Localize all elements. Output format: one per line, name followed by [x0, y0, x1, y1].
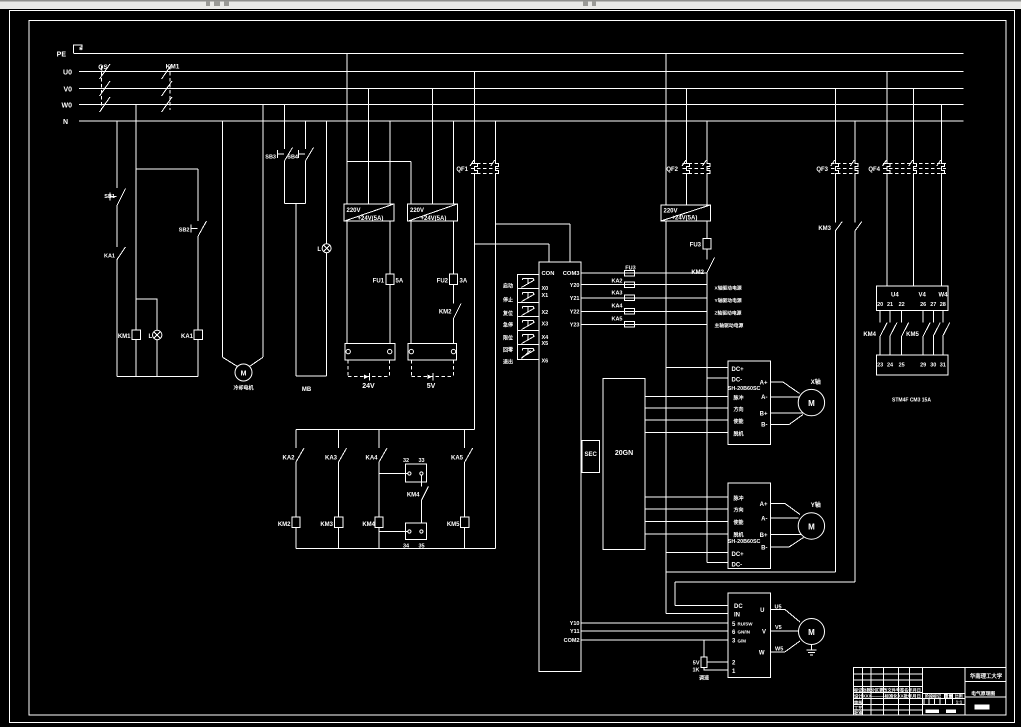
svg-text:KA1: KA1 [181, 334, 194, 340]
input switch SW4 [522, 321, 535, 330]
wire lamp branch [136, 299, 157, 377]
svg-text:X2: X2 [542, 310, 549, 316]
wire Y23 output [581, 323, 707, 325]
title block frame [853, 668, 1006, 716]
svg-text:+24V(5A): +24V(5A) [358, 216, 384, 222]
wire T2 mid feed from V0 [431, 89, 433, 204]
wire QF4 pole2 from V0 [912, 89, 914, 287]
wire T1 right feed from N [389, 121, 391, 343]
bus U0 [79, 71, 964, 73]
svg-text:V5: V5 [775, 625, 782, 631]
svg-text:RU/SW: RU/SW [738, 622, 754, 627]
svg-text:KM3: KM3 [320, 522, 333, 528]
svg-text:Y22: Y22 [570, 310, 580, 316]
svg-text:24: 24 [887, 363, 894, 369]
svg-text:FU1: FU1 [373, 279, 385, 285]
wire DC+ to driver2 [666, 551, 728, 553]
svg-text:26: 26 [920, 302, 926, 308]
svg-text:Y10: Y10 [570, 621, 580, 627]
wire QF3 pole1 from V0 [834, 89, 836, 572]
svg-text:20: 20 [877, 302, 883, 308]
svg-text:X轴驱动电源: X轴驱动电源 [715, 285, 742, 292]
svg-text:FU2: FU2 [437, 279, 449, 285]
svg-text:220V: 220V [664, 209, 678, 215]
svg-text:KA4: KA4 [365, 456, 378, 462]
svg-text:KA2: KA2 [611, 279, 622, 285]
svg-text:220V: 220V [347, 208, 361, 214]
svg-text:U0: U0 [63, 70, 72, 77]
wire Y21 output [581, 297, 707, 299]
wire B- to Y motor [770, 538, 803, 548]
bus PE [74, 53, 964, 55]
wire Y22 output [581, 310, 707, 312]
transformer T1 220V/24V [344, 204, 394, 221]
terminal block 24V [345, 343, 395, 360]
wire QF4 pole1 from U0 [886, 72, 888, 287]
svg-text:1K: 1K [692, 668, 699, 674]
wire branch to 34 [379, 531, 408, 533]
svg-text:标记处数分区更改文件号签名年月日: 标记处数分区更改文件号签名年月日 [853, 687, 921, 694]
svg-text:方向: 方向 [734, 507, 744, 514]
svg-text:SB2: SB2 [179, 228, 190, 234]
wire T3 mid feed from V0 [686, 89, 688, 205]
wire DC- to driver1 [707, 377, 728, 379]
svg-text:21: 21 [887, 302, 893, 308]
wire left control rail B from W0 [135, 105, 137, 377]
svg-text:华南理工大学: 华南理工大学 [970, 672, 1003, 680]
svg-text:Z轴驱动电源: Z轴驱动电源 [715, 310, 742, 317]
wire Y20 output [581, 284, 707, 286]
input switch SW6 [522, 349, 535, 358]
wire T3 left feed from PE down to spindle IN [666, 54, 728, 614]
svg-text:L: L [317, 247, 321, 253]
svg-text:Y23: Y23 [570, 323, 580, 329]
svg-text:B+: B+ [760, 411, 768, 417]
svg-text:U4: U4 [891, 293, 899, 299]
svg-text:3A: 3A [460, 279, 468, 285]
svg-text:QF2: QF2 [666, 167, 678, 173]
wire branch to 32 [379, 473, 408, 475]
wire 20GN to driver2 pin3 [645, 521, 728, 523]
terminal box 34 35 [406, 523, 427, 539]
svg-text:脱机: 脱机 [733, 431, 744, 438]
svg-text:脉冲: 脉冲 [733, 395, 744, 402]
svg-text:L: L [149, 334, 153, 340]
svg-text:FU3: FU3 [690, 243, 702, 249]
svg-text:SB3: SB3 [265, 155, 276, 161]
svg-text:批准: 批准 [854, 710, 863, 717]
svg-text:5V: 5V [427, 383, 436, 390]
svg-text:KM2: KM2 [439, 310, 452, 316]
svg-text:KA5: KA5 [451, 456, 464, 462]
svg-text:Y20: Y20 [570, 283, 580, 289]
svg-text:A-: A- [761, 395, 767, 401]
svg-text:设计XXX———标准化XX批年月日: 设计XXX———标准化XX批年月日 [854, 693, 921, 700]
svg-text:220V: 220V [410, 208, 424, 214]
wire 20GN to driver2 pin4 [645, 533, 728, 535]
svg-text:22: 22 [899, 302, 905, 308]
svg-text:Y轴: Y轴 [811, 501, 821, 509]
input switch SW2 [522, 293, 535, 302]
svg-text:B-: B- [761, 546, 767, 552]
svg-text:KA3: KA3 [325, 456, 338, 462]
svg-text:QF4: QF4 [868, 167, 880, 173]
svg-text:使能: 使能 [733, 519, 744, 526]
svg-text:SEC: SEC [585, 452, 598, 458]
wire stair to spindle IN [666, 571, 836, 573]
input switch column box [518, 274, 539, 359]
svg-text:主轴驱动电源: 主轴驱动电源 [715, 322, 744, 329]
svg-text:W5: W5 [775, 647, 783, 653]
svg-text:V: V [762, 630, 766, 636]
svg-text:回零: 回零 [503, 347, 514, 354]
terminal box U4 V4 W4 [876, 286, 948, 311]
svg-text:Y11: Y11 [570, 629, 579, 635]
controller box 20GN [603, 379, 645, 550]
svg-text:B+: B+ [760, 533, 768, 539]
svg-text:COM2: COM2 [564, 638, 580, 644]
svg-text:25: 25 [899, 363, 905, 369]
dashed 5V output [411, 360, 453, 377]
svg-text:KM2: KM2 [278, 522, 291, 528]
svg-text:KM4: KM4 [407, 493, 420, 499]
svg-text:M: M [808, 628, 815, 637]
svg-text:X轴: X轴 [811, 378, 821, 386]
svg-text:U5: U5 [775, 605, 782, 611]
wire relay row bottom bus [296, 547, 495, 549]
input switch SW5 [522, 335, 535, 344]
svg-text:KA1: KA1 [104, 254, 115, 260]
svg-text:重量: 重量 [945, 693, 953, 699]
svg-text:KM3: KM3 [818, 226, 831, 232]
dashed 24V output [348, 360, 390, 377]
svg-text:30: 30 [930, 363, 936, 369]
svg-text:5A: 5A [396, 279, 404, 285]
wire T3 right feed from N [706, 121, 708, 562]
svg-text:23: 23 [877, 363, 883, 369]
svg-text:脉冲: 脉冲 [733, 495, 744, 502]
interface box SEC [582, 441, 599, 473]
svg-text:N: N [63, 119, 68, 126]
svg-text:U: U [760, 608, 764, 614]
svg-text:28: 28 [940, 302, 946, 308]
wire 20GN to driver2 pin2 [645, 508, 728, 510]
wire 20GN to driver1 pin3 [645, 419, 728, 421]
wire QF1 right pole from N to relay return [494, 121, 496, 548]
svg-text:G/M: G/M [738, 638, 747, 643]
PE flag symbol [74, 45, 83, 54]
wire SB3/SB4 bottom bar [285, 203, 306, 205]
bus W0 [79, 104, 964, 106]
svg-text:B-: B- [761, 423, 767, 429]
svg-text:+24V(5A): +24V(5A) [421, 216, 447, 222]
svg-text:KA3: KA3 [611, 291, 622, 297]
wire relay row top bus [296, 429, 475, 431]
svg-text:1:1: 1:1 [956, 700, 963, 705]
svg-text:W: W [759, 651, 765, 657]
svg-text:使能: 使能 [733, 418, 744, 425]
wire 20GN to driver1 pin4 [645, 432, 728, 434]
svg-text:24V: 24V [362, 383, 375, 390]
terminal block 5V [408, 343, 456, 360]
svg-text:M: M [808, 522, 815, 531]
wire A- to X motor [770, 396, 799, 398]
wire A+ to X motor [770, 382, 799, 394]
wire 20GN to driver1 pin2 [645, 407, 728, 409]
wire left control bottom bar [117, 375, 198, 377]
svg-text:W4: W4 [939, 293, 949, 299]
svg-text:32: 32 [403, 458, 409, 464]
wire left control rail A from N [116, 121, 118, 376]
wire QF3 pole2 from N [854, 121, 856, 582]
wire T2 right feed from N [453, 121, 455, 343]
wire MB drop [295, 204, 297, 376]
svg-text:SH-20B60SC: SH-20B60SC [728, 386, 761, 392]
wire DC- to driver2 [707, 561, 728, 563]
wire T1 mid feed from V0 [367, 89, 369, 204]
input switch SW3 [522, 307, 535, 316]
svg-text:DC+: DC+ [732, 552, 745, 558]
wire T1 left feed from PE [346, 54, 348, 344]
wire A- to Y motor [770, 517, 798, 519]
svg-text:+24V(5A): +24V(5A) [672, 216, 698, 222]
wire stair feed to COM rail [475, 244, 549, 262]
svg-text:KA4: KA4 [611, 304, 623, 310]
stepper driver U1 X axis [728, 361, 770, 445]
stepper driver U2 Y axis [728, 483, 770, 568]
wire Y10 to spindle pin5 [581, 622, 728, 624]
svg-text:QF1: QF1 [456, 167, 468, 173]
title filled bar2 [946, 710, 956, 713]
bus N [79, 120, 964, 122]
svg-text:SH-20B60SC: SH-20B60SC [728, 539, 761, 545]
svg-text:IN: IN [734, 613, 740, 619]
wire COM2 to spindle pin3 [581, 639, 728, 641]
svg-text:X3: X3 [542, 322, 549, 328]
svg-text:KM2: KM2 [691, 270, 704, 276]
wire B+ to Y motor [770, 534, 801, 536]
svg-text:停止: 停止 [503, 297, 513, 304]
input switch SW1 [522, 278, 535, 287]
wire B- to X motor [770, 415, 803, 425]
svg-text:退出: 退出 [503, 359, 513, 366]
svg-text:KM5: KM5 [447, 522, 460, 528]
svg-text:33: 33 [418, 458, 424, 464]
wire motor M feeder left from N [222, 121, 224, 357]
PLC terminal strip CON [539, 262, 581, 672]
svg-text:KM5: KM5 [906, 332, 919, 338]
svg-text:X1: X1 [542, 293, 549, 299]
svg-text:QF3: QF3 [816, 167, 828, 173]
svg-text:M: M [808, 399, 815, 408]
svg-text:KM4: KM4 [362, 522, 375, 528]
svg-text:A-: A- [761, 517, 767, 523]
svg-text:V0: V0 [63, 87, 72, 94]
motor M1 funnel leads [223, 357, 264, 366]
svg-text:GN/IN: GN/IN [738, 630, 751, 635]
spindle motor M [799, 619, 825, 645]
svg-text:DC-: DC- [732, 563, 743, 569]
wire stair feed to CON rail [495, 224, 570, 262]
svg-text:CON: CON [542, 271, 555, 277]
svg-text:27: 27 [930, 302, 936, 308]
svg-text:SB4: SB4 [287, 155, 299, 161]
svg-text:KA5: KA5 [611, 317, 622, 323]
wire QF1 left pole from U0 to relay row [474, 72, 476, 430]
wire left control rail C [197, 169, 199, 376]
wire DC+ to driver1 [666, 367, 728, 369]
wire U to spindle motor [771, 610, 801, 623]
ground symbol [807, 645, 817, 656]
wire motor M feeder right from W0 [262, 105, 264, 358]
svg-text:调速: 调速 [699, 675, 709, 682]
spindle driver U3 [728, 593, 770, 678]
wire 20GN to driver1 pin1 [645, 396, 728, 398]
window toolbar remnant strip [0, 0, 1021, 9]
wire lamp2 branch from N [326, 121, 328, 376]
svg-text:启动: 启动 [503, 283, 513, 290]
wire W to spindle motor [771, 641, 801, 652]
svg-text:COM3: COM3 [563, 271, 581, 277]
svg-text:5V: 5V [693, 661, 700, 667]
svg-text:DC+: DC+ [732, 367, 745, 373]
svg-text:阶段标记: 阶段标记 [925, 693, 941, 699]
transformer T2 220V/24V [408, 204, 458, 221]
svg-text:STM4F CM3 15A: STM4F CM3 15A [892, 398, 931, 404]
svg-text:31: 31 [940, 363, 946, 369]
wire B+ to X motor [770, 412, 803, 414]
terminal box 23-31 [876, 355, 948, 375]
transformer T3 220V/24V [661, 205, 710, 221]
svg-text:Y21: Y21 [570, 296, 580, 302]
wire MB bottom bar [296, 375, 327, 377]
title filled bar3 [975, 705, 990, 710]
svg-text:QS: QS [98, 64, 108, 71]
svg-text:KM4: KM4 [863, 332, 876, 338]
svg-text:PE: PE [57, 52, 67, 59]
wire COM3 output [581, 272, 707, 274]
svg-text:W0: W0 [62, 103, 73, 110]
svg-text:A+: A+ [760, 381, 768, 387]
wire stair to spindle DC [675, 582, 855, 606]
svg-text:方向: 方向 [734, 406, 744, 413]
svg-text:比例: 比例 [955, 693, 963, 699]
svg-text:A+: A+ [760, 502, 768, 508]
svg-text:KM1: KM1 [118, 334, 131, 340]
motor M1 [235, 364, 252, 381]
wire branch to T2 [347, 161, 411, 343]
svg-text:复位: 复位 [502, 310, 513, 317]
svg-text:急停: 急停 [503, 322, 513, 329]
svg-text:电气原理图: 电气原理图 [971, 690, 995, 697]
svg-text:Y轴驱动电源: Y轴驱动电源 [715, 297, 742, 304]
wire A+ to Y motor [770, 504, 800, 515]
wire 20GN to driver2 pin1 [645, 496, 728, 498]
svg-text:DC-: DC- [732, 377, 743, 383]
svg-text:冷却电机: 冷却电机 [233, 385, 253, 392]
title filled bar1 [926, 710, 940, 713]
svg-text:脱机: 脱机 [733, 532, 744, 539]
svg-text:V4: V4 [919, 293, 927, 299]
wire QF4 pole3 from W0 [940, 105, 942, 287]
svg-text:*: * [79, 46, 83, 57]
svg-text:DC: DC [734, 604, 743, 610]
svg-text:MB: MB [302, 387, 312, 393]
svg-text:20GN: 20GN [615, 450, 633, 457]
wire control box top bar [136, 168, 198, 170]
svg-text:M: M [241, 371, 247, 378]
svg-text:KA2: KA2 [282, 456, 295, 462]
svg-text:限位: 限位 [503, 335, 513, 342]
svg-text:X0: X0 [542, 286, 549, 292]
wire V to spindle motor [771, 630, 799, 632]
svg-text:29: 29 [920, 363, 926, 369]
svg-text:X6: X6 [542, 359, 549, 365]
svg-text:X5: X5 [542, 341, 549, 347]
input switch SW7 blade [522, 351, 531, 359]
wire Y11 to spindle pin6 [581, 630, 728, 632]
bus V0 [79, 88, 964, 90]
